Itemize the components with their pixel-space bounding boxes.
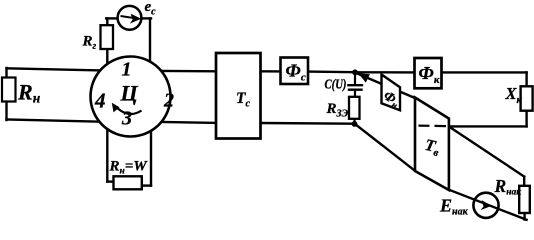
svg-text:С(U): С(U) xyxy=(325,78,347,93)
svg-text:RЗЭ: RЗЭ xyxy=(326,101,349,120)
svg-text:Енак: Енак xyxy=(439,196,469,218)
svg-text:Rнак: Rнак xyxy=(494,176,523,198)
svg-text:4: 4 xyxy=(94,89,106,113)
svg-text:1: 1 xyxy=(122,58,132,80)
svg-text:3: 3 xyxy=(121,108,132,130)
svg-text:Rн=W: Rн=W xyxy=(109,158,149,176)
svg-text:Ц: Ц xyxy=(120,81,139,106)
svg-text:2: 2 xyxy=(163,90,174,112)
svg-text:Rг: Rг xyxy=(82,34,97,53)
svg-text:Rн: Rн xyxy=(17,79,41,105)
svg-text:ес: ес xyxy=(145,0,157,18)
